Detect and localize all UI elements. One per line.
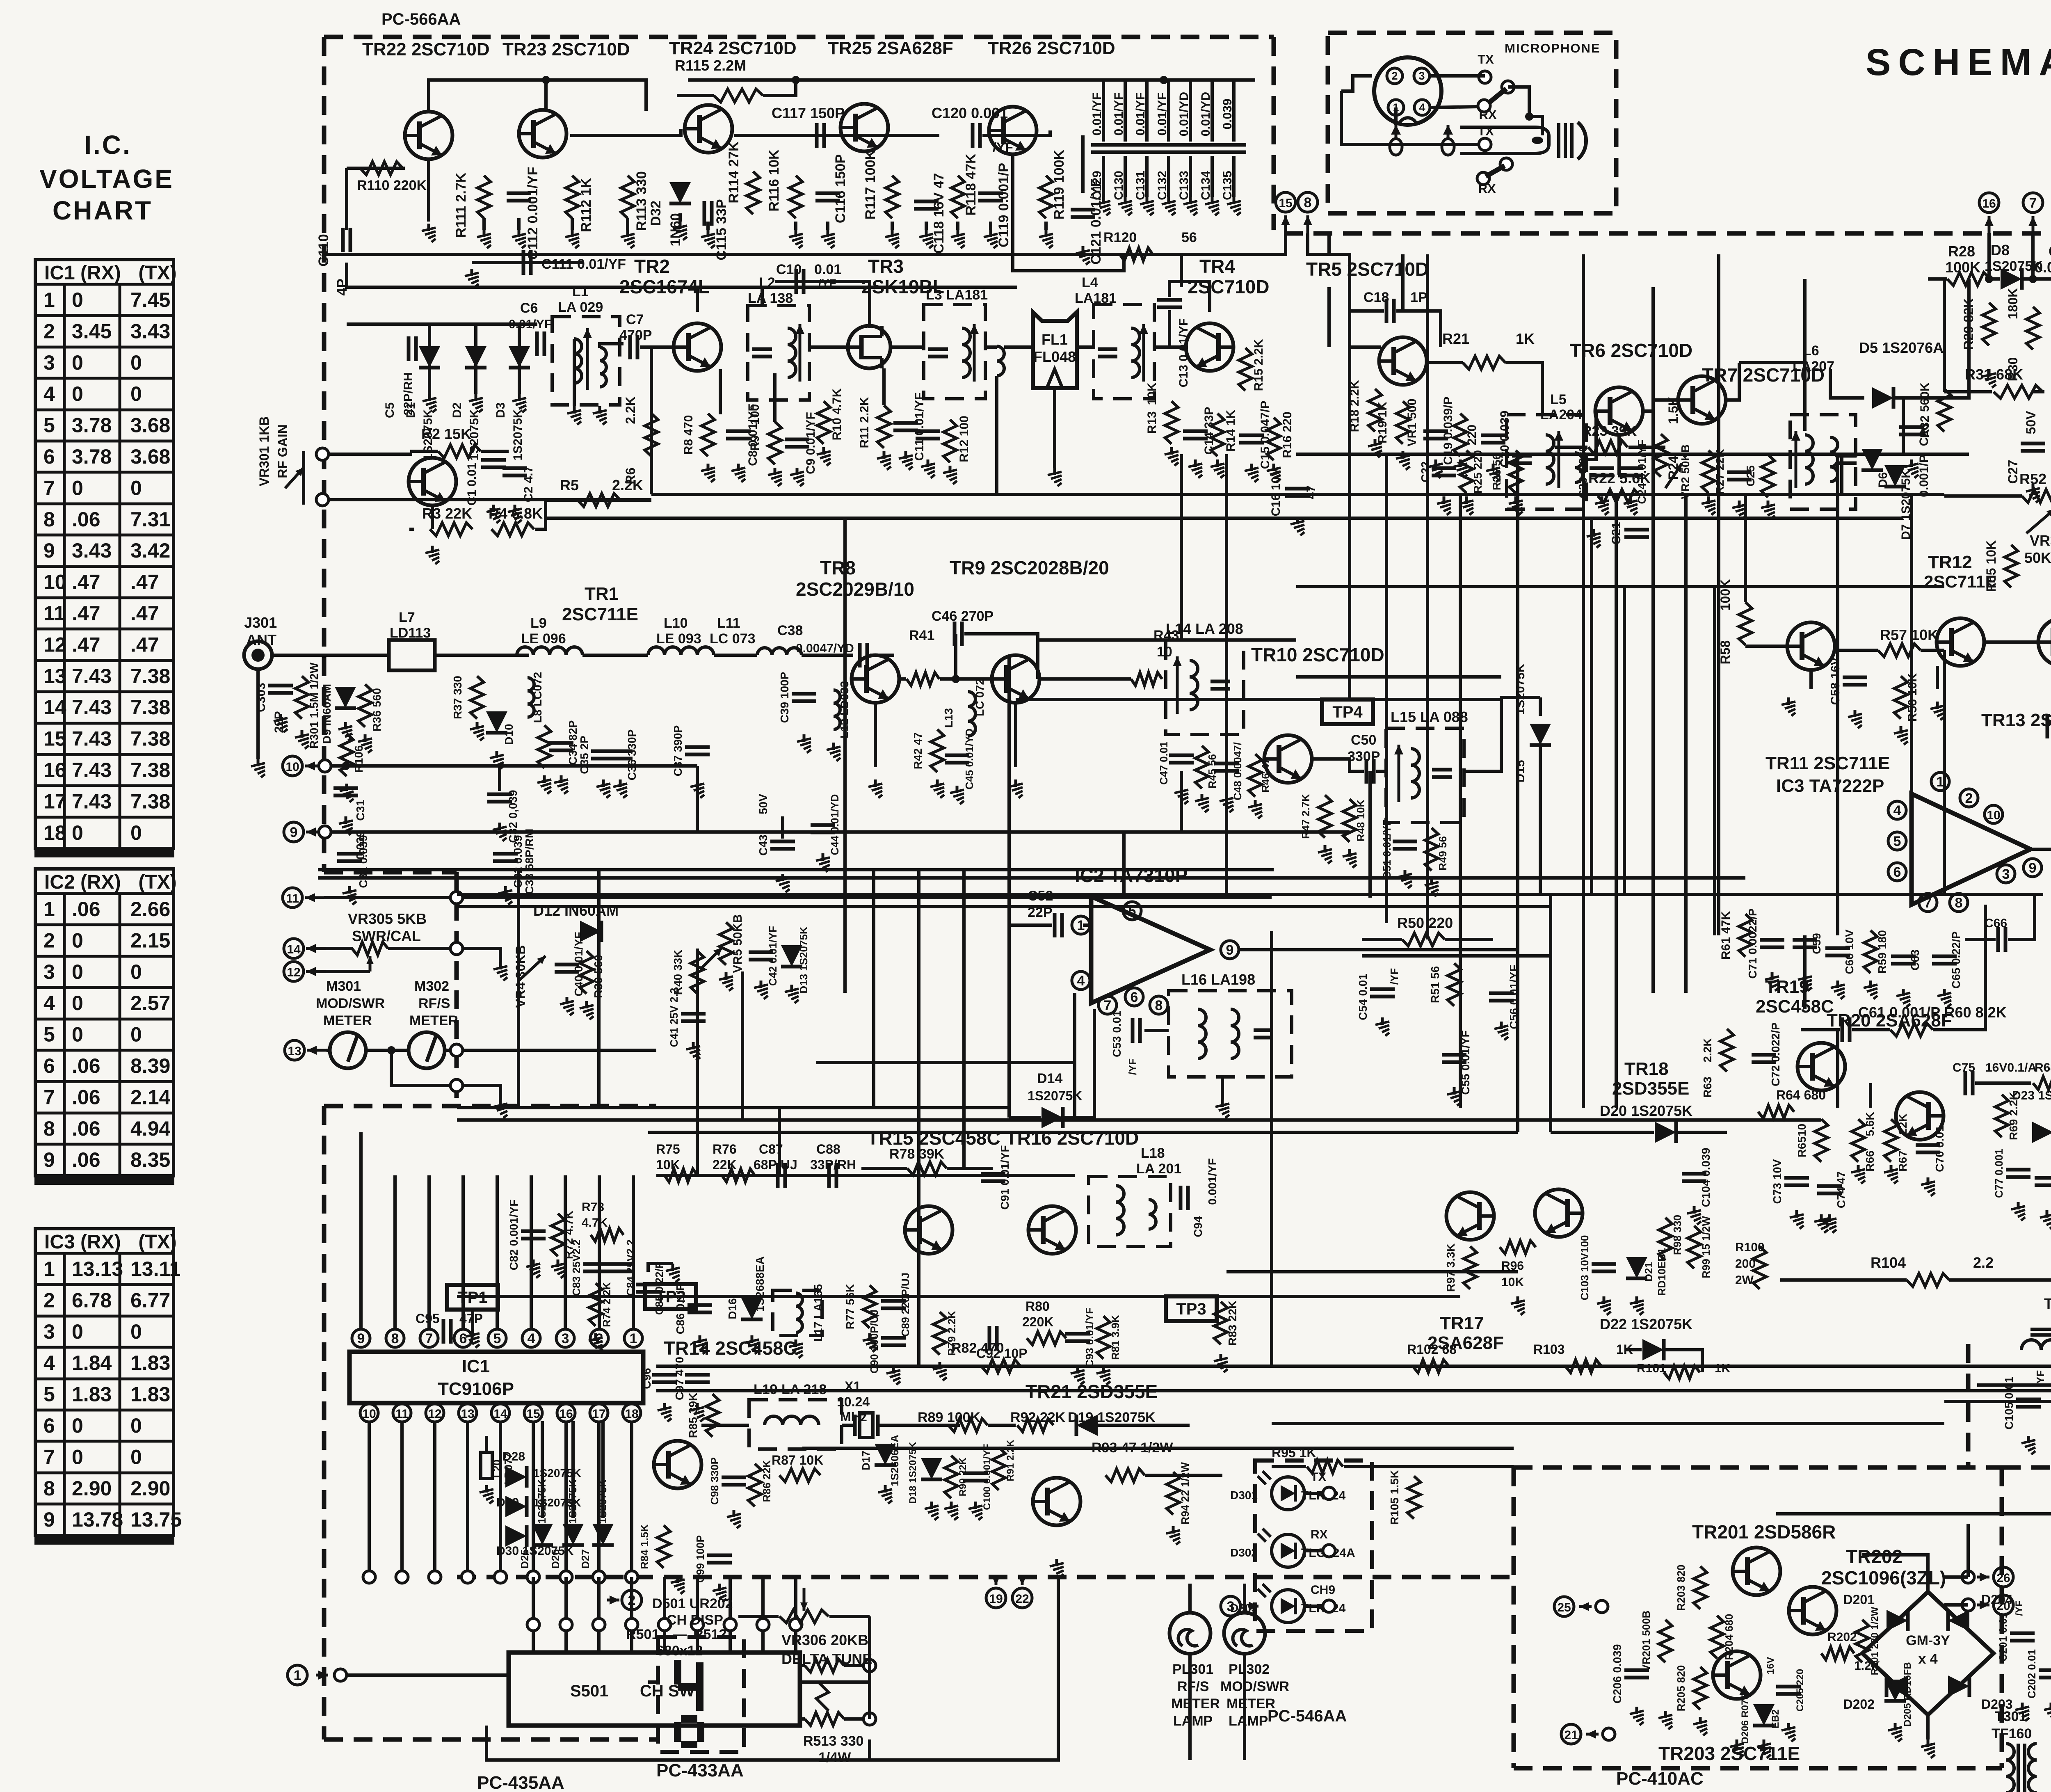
- svg-text:R11 2.2K: R11 2.2K: [858, 397, 871, 448]
- svg-text:R41: R41: [909, 628, 934, 643]
- transistor TR22: [405, 112, 452, 159]
- capacitor C52 22P: [1055, 913, 1062, 937]
- svg-text:C32 0,039: C32 0,039: [507, 790, 519, 843]
- ground R42: [930, 779, 944, 798]
- capacitor C1 0.01: [481, 460, 506, 467]
- wire: [1975, 1081, 2031, 1085]
- svg-text:R8 470: R8 470: [682, 415, 695, 455]
- wire TR24-26 top bus: [688, 78, 1164, 82]
- svg-text:/YF: /YF: [1126, 1058, 1139, 1075]
- LED D303 TLR124: [1258, 1584, 1304, 1623]
- ground: [1730, 1739, 1744, 1758]
- VR305 wiper: [369, 956, 372, 971]
- capacitor C83 25V2.2: [583, 1264, 608, 1271]
- PC-410AC left dash: [1512, 1467, 1516, 1768]
- diode D9 IN60AM: [335, 687, 356, 708]
- wire interconnect: [1549, 894, 1552, 1132]
- svg-text:8: 8: [43, 1477, 55, 1500]
- svg-text:0.01/YF: 0.01/YF: [509, 318, 552, 331]
- resistor R65 10: [1815, 1119, 1828, 1162]
- IC1 pin 15: [524, 1404, 542, 1422]
- inductor L13 LC072: [968, 692, 975, 736]
- svg-text:0: 0: [72, 992, 83, 1015]
- capacitor C205 16V 220: [1776, 1687, 1801, 1694]
- svg-text:3: 3: [1227, 1599, 1235, 1614]
- ground: [885, 230, 899, 248]
- diode D10 IN60AM: [486, 711, 507, 733]
- node 2: [1960, 789, 1978, 807]
- svg-text:R61 47K: R61 47K: [1719, 911, 1733, 960]
- ground: [933, 1362, 947, 1381]
- wire L1: [573, 339, 576, 406]
- ground C96: [658, 1403, 671, 1422]
- IC1 pin 11: [393, 1404, 411, 1422]
- ground: [1790, 1210, 1804, 1229]
- node 1: [288, 1665, 307, 1685]
- wire C32: [498, 766, 501, 791]
- resistor R48 10K: [1343, 799, 1356, 842]
- wire: [518, 369, 521, 394]
- wire R115 lead: [677, 94, 714, 97]
- resistor R100 200 2W: [1753, 1246, 1766, 1289]
- resistor R40 33K: [691, 951, 704, 994]
- capacitor C51 0.01/YF: [1393, 841, 1417, 849]
- IC1 pin 10: [360, 1404, 378, 1422]
- resistor R69 2.2K: [1995, 1095, 2008, 1137]
- wire: [844, 1664, 870, 1667]
- terminal 21: [1603, 1728, 1615, 1740]
- wire center v: [1590, 518, 1593, 894]
- wire C129 top: [1102, 80, 1105, 142]
- svg-text:R16 220: R16 220: [1281, 411, 1294, 458]
- svg-text:TF160: TF160: [1992, 1726, 2032, 1742]
- resistor R8 470: [701, 414, 715, 456]
- capacitor C70 0.01/YF: [1916, 1145, 1940, 1152]
- ground bridge: [1921, 1739, 1935, 1758]
- arrow to 15: [1284, 215, 1287, 233]
- PC-410AC top dash: [1514, 1465, 2002, 1470]
- wire: [1083, 923, 1090, 927]
- capacitor L14 internal: [1211, 681, 1230, 689]
- capacitor C20 0.039: [1481, 435, 1505, 443]
- ground: [1765, 972, 1779, 991]
- wire center v: [1713, 587, 1716, 935]
- wire clamp bus: [347, 322, 537, 326]
- svg-text:68P/UJ: 68P/UJ: [754, 1157, 797, 1172]
- wire interconnect v2: [597, 870, 601, 1108]
- svg-text:R6510: R6510: [1795, 1124, 1808, 1158]
- inductor L18 pri: [1116, 1186, 1124, 1235]
- table IC1 voltages: [34, 260, 177, 857]
- svg-text:C16 10V: C16 10V: [1269, 469, 1283, 517]
- wire: [800, 1680, 870, 1684]
- ground: [477, 230, 491, 248]
- wire interconnect v2: [1459, 494, 1462, 1108]
- wire mesh v: [741, 971, 744, 1120]
- arrow to 7: [2032, 216, 2035, 233]
- wire D1: [428, 324, 431, 369]
- svg-text:R80: R80: [1025, 1299, 1050, 1314]
- svg-text:13: 13: [43, 665, 66, 688]
- capacitor C65 0.22/P: [1932, 956, 1957, 964]
- svg-text:L8 LC072: L8 LC072: [531, 672, 544, 723]
- svg-text:180K: 180K: [2005, 288, 2020, 320]
- wire R2 out: [481, 450, 509, 453]
- svg-text:C111 0.01/YF: C111 0.01/YF: [541, 256, 626, 272]
- wire: [1221, 1077, 1224, 1099]
- svg-text:26: 26: [1996, 1571, 2010, 1585]
- svg-text:D201: D201: [1843, 1592, 1875, 1607]
- svg-text:RF GAIN: RF GAIN: [275, 424, 290, 478]
- wire: [1744, 494, 1747, 583]
- svg-text:VR1 500: VR1 500: [1405, 399, 1419, 447]
- svg-text:R119 100K: R119 100K: [1051, 149, 1067, 219]
- wire center v: [1623, 587, 1626, 894]
- svg-text:C201 0.01: C201 0.01: [1997, 1612, 2009, 1662]
- diode D6 1N60AM: [1861, 449, 1883, 470]
- svg-text:METER: METER: [1171, 1696, 1220, 1712]
- svg-text:R26 56: R26 56: [1490, 453, 1503, 490]
- svg-text:13.75: 13.75: [130, 1508, 182, 1531]
- wire R6 drop: [650, 347, 653, 494]
- svg-text:14: 14: [493, 1407, 507, 1421]
- svg-text:13.11: 13.11: [130, 1257, 180, 1280]
- node 9: [2024, 859, 2042, 877]
- svg-text:IC3 (RX): IC3 (RX): [44, 1231, 121, 1253]
- svg-text:7.31: 7.31: [130, 508, 170, 531]
- ground: [1166, 1526, 1180, 1545]
- resistor R37 330: [470, 676, 484, 719]
- svg-text:0: 0: [130, 1414, 142, 1437]
- svg-text:D14: D14: [1037, 1071, 1062, 1086]
- resistor R501-R512 680x12: [805, 1659, 844, 1672]
- resistor R57 10K: [1878, 644, 1921, 657]
- wire: [989, 222, 992, 230]
- resistor R59 180: [1864, 930, 1877, 973]
- svg-text:.06: .06: [72, 1148, 100, 1171]
- svg-text:.47: .47: [130, 633, 159, 656]
- S501 channel switch: [509, 1653, 800, 1726]
- resistor R3 22K: [430, 523, 473, 536]
- svg-text:6: 6: [459, 1331, 467, 1346]
- svg-text:R29 82K: R29 82K: [1961, 298, 1976, 350]
- ground: [1453, 459, 1467, 478]
- capacitor C95 47P: [443, 1319, 451, 1344]
- tuning arrow L6: [1795, 431, 1797, 488]
- svg-text:C77 0.001: C77 0.001: [1993, 1149, 2005, 1198]
- wire IC3 to T1: [2030, 775, 2051, 849]
- terminal: [319, 826, 331, 838]
- svg-text:IC1: IC1: [462, 1356, 490, 1376]
- capacitor C6 0.01/YF: [537, 331, 544, 356]
- terminal 20: [1962, 1599, 1974, 1611]
- svg-text:7.38: 7.38: [130, 696, 170, 719]
- svg-text:(TX): (TX): [138, 1231, 176, 1253]
- wire: [1555, 446, 1587, 449]
- ground: [701, 230, 715, 248]
- edge terminal 2: [757, 1618, 769, 1631]
- ground: [1509, 496, 1523, 515]
- wire: [1362, 938, 1402, 941]
- svg-text:1S2075K: 1S2075K: [1514, 663, 1527, 715]
- ground: [745, 1335, 759, 1354]
- svg-text:CH DISP: CH DISP: [667, 1612, 723, 1628]
- resistor R90 22K: [945, 1456, 958, 1498]
- wire audio row: [656, 1174, 1075, 1177]
- svg-text:R85 39K: R85 39K: [687, 1393, 699, 1438]
- wire: [1921, 649, 1944, 652]
- PC-566AA right edge: [1272, 37, 1276, 230]
- edge terminal 2: [626, 1618, 638, 1631]
- svg-text:IC2 TA7310P: IC2 TA7310P: [1075, 865, 1188, 886]
- wire pin drop: [433, 1422, 436, 1577]
- wire S501 input: [729, 1577, 732, 1653]
- svg-text:TR1: TR1: [585, 584, 619, 604]
- resistor R106 10: [340, 734, 353, 776]
- mic cord strain symbols: [1390, 139, 1402, 155]
- ground: [925, 1502, 939, 1520]
- ground: [537, 775, 551, 794]
- ground R47: [1318, 845, 1332, 864]
- ground: [899, 451, 913, 470]
- resistor R92 22K: [1017, 1419, 1053, 1432]
- resistor R101 1K: [1664, 1366, 1700, 1379]
- svg-text:11: 11: [43, 602, 65, 625]
- arrow 19: [995, 1577, 998, 1585]
- svg-text:J301: J301: [244, 614, 277, 631]
- svg-text:LA 138: LA 138: [748, 290, 793, 306]
- svg-text:3.43: 3.43: [72, 539, 112, 562]
- capacitor C92 10P: [989, 1326, 997, 1351]
- wire S501 input: [761, 1577, 765, 1653]
- ground TR12: [1930, 702, 1944, 720]
- capacitor C41 25V 2.2: [681, 1014, 706, 1021]
- inductor T2 TF083: [2021, 1340, 2051, 1350]
- resistor R60 8.2K: [1890, 1023, 1933, 1036]
- svg-text:RX: RX: [1478, 181, 1496, 196]
- svg-text:C41 25V 2.2: C41 25V 2.2: [668, 988, 680, 1047]
- resistor R77 56K: [863, 1285, 876, 1328]
- ground: [1375, 1017, 1389, 1036]
- IC1 pin 2: [590, 1329, 608, 1347]
- transistor TR6 2SC710D: [1595, 387, 1643, 435]
- ground C111: [465, 269, 479, 287]
- svg-text:.06: .06: [72, 898, 100, 921]
- inductor L6 sec: [1830, 437, 1838, 482]
- capacitor L4 internal: [1098, 349, 1117, 357]
- wire bottom bus 3390: [656, 1389, 2051, 1392]
- svg-text:2.14: 2.14: [130, 1086, 171, 1109]
- wire: [1944, 390, 1992, 393]
- wire: [1272, 1465, 1306, 1468]
- svg-text:5: 5: [493, 1331, 501, 1346]
- L16 shield box: [1169, 991, 1292, 1077]
- svg-text:16V0.1/A: 16V0.1/A: [1985, 1061, 2037, 1074]
- wire: [1445, 938, 1493, 941]
- resistor R93 47 1/2W: [1105, 1469, 1145, 1482]
- svg-text:D30 1S2075K: D30 1S2075K: [496, 1544, 574, 1558]
- svg-text:0: 0: [72, 476, 83, 499]
- svg-text:MOD/SWR: MOD/SWR: [1220, 1679, 1289, 1694]
- wire feedback: [1933, 905, 1985, 1030]
- transistor TR5 2SC710D: [1379, 337, 1427, 385]
- svg-text:1: 1: [294, 1668, 301, 1683]
- svg-text:3: 3: [43, 1320, 55, 1343]
- capacitor C48 0.0047/YD: [1214, 763, 1239, 771]
- wire antenna feed 2: [435, 654, 529, 657]
- svg-text:TR9 2SC2028B/20: TR9 2SC2028B/20: [950, 557, 1109, 578]
- capacitor C64 10V 47: [2047, 714, 2051, 738]
- resistor R4 6.8K: [491, 523, 534, 536]
- svg-text:9: 9: [357, 1331, 365, 1346]
- svg-text:METER: METER: [409, 1013, 458, 1029]
- bridge rectifier GM-3Y x4: [1843, 1592, 2013, 1715]
- wire mesh v: [962, 1108, 966, 1168]
- resistor R68 1K: [2033, 1077, 2051, 1090]
- junction: [342, 762, 350, 770]
- ground C39: [797, 734, 811, 753]
- wire pin drop: [400, 1422, 404, 1577]
- wire 7 drop: [2031, 233, 2035, 279]
- wire: [1965, 938, 1996, 941]
- svg-text:C82 0.001/YF: C82 0.001/YF: [507, 1200, 520, 1271]
- capacitor C112 0.001/YF: [507, 193, 531, 201]
- svg-text:0.01/YD: 0.01/YD: [1177, 92, 1191, 136]
- svg-text:R81 3.9K: R81 3.9K: [1109, 1315, 1121, 1360]
- svg-text:2: 2: [1391, 70, 1398, 82]
- svg-text:C100 0.001/YF: C100 0.001/YF: [982, 1444, 993, 1510]
- capacitor L6 internal: [1837, 456, 1857, 463]
- svg-text:R202: R202: [1827, 1630, 1857, 1644]
- svg-text:D302: D302: [1230, 1546, 1258, 1559]
- svg-text:7: 7: [43, 1086, 55, 1109]
- wire IC1 top pin: [393, 1175, 397, 1329]
- svg-text:C88: C88: [816, 1142, 840, 1157]
- edge terminal 2: [527, 1618, 539, 1631]
- svg-text:D2: D2: [450, 402, 464, 418]
- ground: [719, 972, 733, 991]
- svg-text:L5: L5: [1550, 392, 1567, 407]
- svg-text:R37 330: R37 330: [451, 676, 464, 719]
- chassis dash vertical right: [1966, 1344, 1971, 1467]
- ground meter: [493, 1099, 507, 1118]
- L17 shield box: [773, 1290, 822, 1335]
- wire top RF bus: [324, 253, 1284, 256]
- svg-text:MOD/SWR: MOD/SWR: [316, 996, 385, 1011]
- ground: [1896, 989, 1910, 1007]
- L15 shield box: [1386, 728, 1464, 823]
- svg-text:1P: 1P: [1410, 290, 1427, 305]
- wire: [1064, 1009, 1094, 1118]
- wire 11 bus: [324, 896, 1272, 899]
- ground: [1096, 1366, 1110, 1385]
- ground: [1781, 1723, 1795, 1742]
- svg-text:TR13 2SC711E: TR13 2SC711E: [1981, 710, 2051, 730]
- svg-text:R97 3.3K: R97 3.3K: [1444, 1243, 1457, 1292]
- svg-text:D3: D3: [494, 402, 507, 418]
- svg-text:C37 390P: C37 390P: [671, 725, 684, 777]
- ground C105: [2021, 1436, 2035, 1454]
- wire: [829, 1615, 870, 1618]
- svg-text:6: 6: [43, 1414, 55, 1437]
- L3 shield box: [924, 304, 985, 399]
- svg-text:2: 2: [43, 1289, 55, 1312]
- svg-text:L11: L11: [717, 615, 740, 631]
- wire TR7 out: [1725, 363, 1739, 400]
- svg-text:0.0047/P: 0.0047/P: [2035, 259, 2051, 276]
- wire: [428, 369, 431, 394]
- resistor R86 22K: [748, 1464, 761, 1506]
- wire interconnect: [1684, 494, 1688, 993]
- junction mic: [1525, 112, 1533, 121]
- wire C13 to TR4 collector: [1169, 281, 1210, 312]
- test point TP3: [1166, 1296, 1217, 1321]
- ground R8: [701, 464, 715, 482]
- wire C131 bottom: [1145, 156, 1149, 197]
- diode D26 1S2075K: [562, 1524, 584, 1545]
- wire TR12-TR13: [1983, 640, 2039, 644]
- wire R11: [882, 368, 886, 405]
- svg-text:R95 1K: R95 1K: [1272, 1445, 1316, 1460]
- svg-text:PC-435AA: PC-435AA: [477, 1773, 564, 1792]
- resistor R49 56: [1425, 828, 1438, 871]
- LED terminal: [1323, 1487, 1335, 1499]
- node 5: [1888, 832, 1906, 850]
- wire interconnect v2: [1869, 1083, 1872, 1108]
- wire R4 junction: [535, 500, 546, 529]
- wire 10 bus: [331, 764, 697, 768]
- svg-text:12: 12: [287, 966, 300, 979]
- arrow 11: [305, 896, 324, 899]
- svg-text:7.43: 7.43: [72, 696, 112, 719]
- svg-text:EB2: EB2: [1770, 1710, 1781, 1729]
- svg-text:D22 1S2075K: D22 1S2075K: [1600, 1316, 1692, 1333]
- ground: [470, 722, 484, 741]
- svg-text:0.01/YF: 0.01/YF: [1112, 92, 1126, 135]
- svg-text:LAMP: LAMP: [1173, 1713, 1213, 1729]
- svg-text:4: 4: [528, 1331, 535, 1346]
- resistor R79 2.2K: [933, 1312, 946, 1355]
- svg-text:TR5 2SC710D: TR5 2SC710D: [1306, 258, 1429, 280]
- svg-text:56: 56: [1181, 230, 1197, 245]
- wire interconnect h: [1272, 1365, 1780, 1368]
- svg-text:R501: R501: [626, 1627, 659, 1642]
- capacitor L15 internal: [1432, 770, 1452, 777]
- ground: [921, 459, 935, 478]
- ground: [1937, 989, 1951, 1007]
- capacitor C87 68P/UJ: [778, 1163, 785, 1188]
- svg-text:0: 0: [72, 288, 83, 311]
- IC1 pin 3: [556, 1329, 574, 1347]
- svg-text:R28: R28: [1948, 243, 1975, 260]
- junction: [387, 1046, 395, 1054]
- capacitor C133 0.01/YD: [1178, 145, 1203, 152]
- svg-text:RF/S: RF/S: [1177, 1679, 1209, 1694]
- test point TP1: [447, 1285, 498, 1310]
- wire interconnect v2: [1426, 254, 1429, 939]
- transistor TR12 2SC711E: [1937, 618, 1984, 666]
- mic plug jack: [1460, 127, 1549, 153]
- wire: [326, 947, 353, 950]
- svg-text:D15: D15: [1514, 760, 1527, 782]
- svg-text:C58 16V: C58 16V: [1829, 657, 1842, 705]
- svg-text:C94: C94: [1192, 1216, 1204, 1237]
- svg-text:8: 8: [1955, 895, 1963, 911]
- svg-text:D28: D28: [502, 1450, 525, 1463]
- svg-text:2.90: 2.90: [72, 1477, 112, 1500]
- chassis dashed line: [1284, 231, 2051, 236]
- wire L3 to FL1: [1004, 345, 1033, 349]
